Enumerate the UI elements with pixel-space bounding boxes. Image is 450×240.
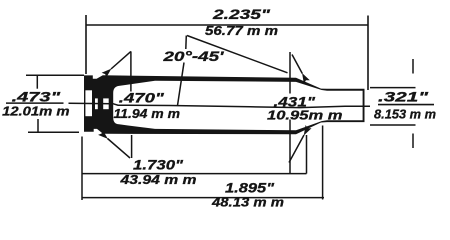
.321 lower tick bbox=[412, 134, 414, 149]
svg-text:10.95m m: 10.95m m bbox=[267, 107, 343, 122]
centerline bbox=[69, 103, 371, 107]
svg-text:20°-45': 20°-45' bbox=[162, 49, 224, 64]
svg-text:48.13 m m: 48.13 m m bbox=[211, 195, 285, 210]
dimension line 1.730 / 43.94 bbox=[82, 173, 307, 175]
arrow to case body (top) bbox=[111, 51, 131, 69]
svg-text:11.94 m m: 11.94 m m bbox=[114, 106, 181, 121]
.473 fraction bar bbox=[6, 102, 64, 104]
svg-text:12.01m m: 12.01m m bbox=[2, 104, 70, 119]
svg-text:56.77 m m: 56.77 m m bbox=[205, 23, 279, 38]
shoulder angle leader diagonal bbox=[187, 36, 288, 73]
primer pocket bbox=[85, 90, 92, 116]
svg-text:.473": .473" bbox=[12, 90, 61, 105]
1.730 tick bbox=[306, 135, 308, 174]
shoulder angle leader vertical bbox=[185, 36, 188, 50]
.321 upper tick bbox=[412, 59, 414, 74]
extension line at case base bbox=[85, 15, 87, 74]
arrow to bottom shoulder bbox=[289, 135, 304, 163]
extension line at case mouth bbox=[367, 16, 369, 91]
arrow to case head bevel (bottom) bbox=[108, 139, 131, 159]
cartridge case silhouette (black section) bbox=[84, 75, 365, 134]
svg-text:43.94 m m: 43.94 m m bbox=[119, 172, 197, 187]
case interior (white hollow) bbox=[113, 81, 362, 131]
dimension line 1.895 / 48.13 bbox=[82, 197, 324, 199]
dimension .473 lower line bbox=[28, 131, 79, 133]
leader vertical for .470 (top) bbox=[130, 51, 132, 91]
svg-text:8.153 m m: 8.153 m m bbox=[374, 107, 436, 122]
dimension .321 lower line bbox=[370, 124, 416, 126]
extension line at shoulder start (.431) bbox=[289, 52, 291, 94]
flash hole bbox=[95, 98, 98, 109]
dimension .321 upper line bbox=[370, 87, 416, 89]
svg-text:2.235": 2.235" bbox=[212, 7, 271, 22]
bottom extension line at case base bbox=[81, 137, 83, 201]
svg-text:.470": .470" bbox=[119, 91, 165, 106]
.473 upper tick bbox=[36, 75, 38, 88]
arrow to top shoulder bbox=[292, 55, 302, 74]
svg-text:1.730": 1.730" bbox=[133, 158, 184, 173]
dimension .473 upper line bbox=[26, 74, 84, 76]
dimension line 2.235in / 56.77mm bbox=[86, 24, 368, 26]
leader vertical below head bbox=[131, 135, 133, 158]
.473 lower tick bbox=[37, 119, 39, 132]
svg-text:1.895": 1.895" bbox=[225, 181, 275, 196]
1.895 tick bbox=[322, 126, 324, 200]
svg-text:.321": .321" bbox=[378, 90, 429, 105]
.321 fraction bar bbox=[378, 104, 434, 106]
